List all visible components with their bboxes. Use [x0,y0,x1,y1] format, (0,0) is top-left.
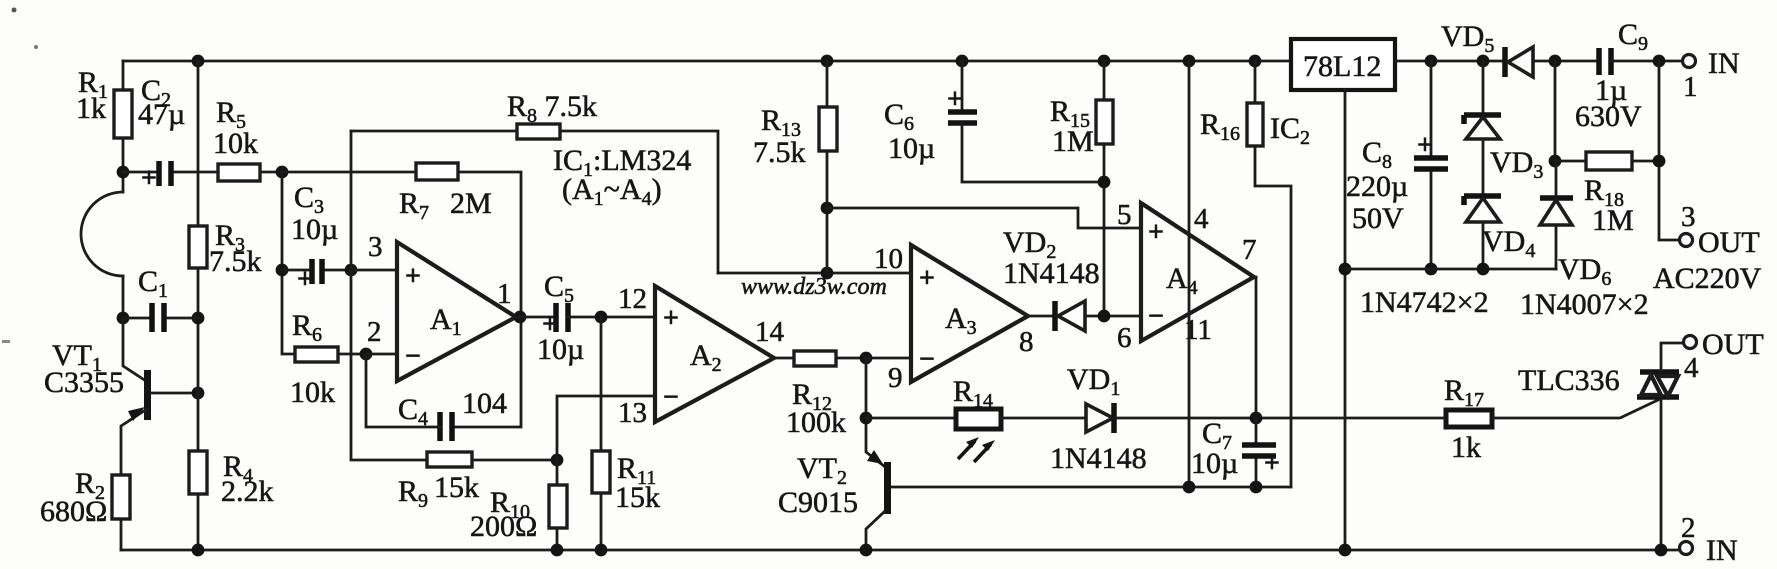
resistor R2 [112,475,130,519]
svg-text:1k: 1k [76,92,106,125]
wire R6 to pin2 node [338,353,366,356]
node VD2 / R15 / pin6 [1098,310,1111,323]
node VD3 top [1477,55,1490,68]
resistor R9 [427,452,472,467]
wire R14 to VD1 [1001,417,1086,420]
node R18 right [1653,155,1666,168]
capacitor C3 [282,269,351,272]
svg-text:10µ: 10µ [888,132,935,165]
node C5 right / R11 top [595,311,608,324]
diode VD6 [1555,161,1558,269]
svg-text:1N4742×2: 1N4742×2 [1360,286,1489,319]
diode VD1 [1086,404,1113,432]
svg-text:+: + [405,261,421,292]
triac TLC336 [1637,372,1679,397]
terminal 4 OUT [1684,336,1697,349]
node zener rail left [1339,263,1352,276]
svg-text:AC220V: AC220V [1653,262,1762,295]
svg-text:+: + [141,163,157,194]
node VD5/C9/R18 [1549,55,1562,68]
resistor R11 [592,451,610,493]
wire VD3 to VD4 [1482,139,1485,196]
wire R3 to C1 node and VT1 base and R4 [197,268,200,451]
capacitor C2 [123,171,218,174]
wire R2 bottom lead [120,519,123,550]
wire R1 top lead [122,61,125,90]
svg-text:3: 3 [368,231,383,263]
svg-text:2M: 2M [450,187,492,220]
wire pin5 jog to A4 [827,208,1141,228]
node A1 output [514,311,527,324]
svg-text:100k: 100k [786,406,846,439]
node pin11 on base wire [1183,481,1196,494]
op-amp A1 [397,242,516,381]
wire pin13 branch [557,396,655,460]
wire VD3 top lead [1482,61,1485,115]
terminal 3 OUT [1680,234,1693,247]
svg-text:7.5k: 7.5k [209,245,262,278]
zener diode VD4 [1464,196,1501,205]
wire triac top to OUT4 [1661,343,1683,372]
svg-text:+: + [919,263,935,294]
svg-text:C3355: C3355 [44,366,124,399]
wire output down to C4 [452,317,521,427]
resistor R18 [1586,152,1632,170]
capacitor C7 [1255,418,1258,487]
node C2/R1/mic [117,166,130,179]
svg-text:TLC336: TLC336 [1518,364,1620,397]
svg-text:15k: 15k [434,471,479,504]
wire VD5 to C9 node [1533,60,1599,63]
op-amp A2 [655,286,774,422]
zener rail [1345,268,1556,271]
svg-text:4: 4 [1684,352,1699,384]
wire R10 leads [556,460,559,550]
resistor R8 [517,124,560,139]
svg-text:www.dz3w.com: www.dz3w.com [741,274,887,300]
op-amp A4 [1141,203,1254,341]
photoresistor R14 [956,409,1001,429]
node R13 / pin5 branch [821,202,834,215]
svg-text:6: 6 [1117,322,1132,354]
svg-text:3: 3 [1681,201,1696,233]
node R14 branch [860,412,873,425]
resistor R12 [794,351,836,366]
node C6/R15 [1098,176,1111,189]
node C8 top [1425,55,1438,68]
resistor R6 [295,347,338,362]
wire R1 bottom lead [122,138,125,192]
node C3 left [276,264,289,277]
wire R5 to node [260,171,282,174]
svg-text:+: + [1264,448,1280,479]
wire VD1 to R17 run [1114,417,1446,420]
svg-text:+: + [1417,130,1433,161]
node C8 bottom rail [1425,263,1438,276]
node A4 out / VD1 run [1250,412,1263,425]
svg-text:2: 2 [1681,512,1696,544]
wire mic to C1 node [122,276,125,318]
svg-text:12: 12 [618,283,647,315]
svg-text:50V: 50V [1352,202,1404,235]
capacitor C9 [1599,48,1611,75]
wire pin3 node down to R9 [351,270,427,460]
svg-text:1: 1 [1683,71,1698,103]
resistor R1 [114,90,132,138]
resistor R5 [218,164,260,181]
svg-text:1N4007×2: 1N4007×2 [1520,288,1649,321]
node triac ground [1655,544,1668,557]
wire R8 top run [351,130,517,133]
svg-text:104: 104 [462,387,507,420]
svg-text:1M: 1M [1592,204,1634,237]
svg-text:2: 2 [367,316,382,348]
wire 78L12 output to VD5 [1395,60,1505,63]
node C7 bottom [1250,481,1263,494]
wire C3/R6 branch [282,172,295,354]
svg-text:C9015: C9015 [778,486,858,519]
wire R11 branch [600,317,603,451]
wire 78L12 ground lead [1344,90,1347,550]
VT2 collector to ground [866,512,884,550]
svg-text:+: + [947,84,963,115]
capacitor C4 [440,412,452,441]
wire C4 to pin2 node [366,354,440,427]
svg-text:15k: 15k [615,481,660,514]
node C1 right [192,312,205,325]
svg-text:14: 14 [755,316,785,348]
wire pin9 into A3 [866,357,911,360]
svg-text:5: 5 [1117,199,1132,231]
node C1 left [117,312,130,325]
svg-text:1M: 1M [1052,125,1094,158]
diode VD5 [1502,47,1508,77]
transistor VT1 [144,370,151,420]
wire to OUT3 terminal [1659,61,1679,240]
node top bus / R3 branch [192,55,205,68]
svg-text:9: 9 [888,362,903,394]
resistor R13 [819,107,837,151]
wire R16 bottom jog down to base wire [1255,146,1291,487]
wire R7 feed from input node [282,171,416,174]
R14 light arrows [958,441,975,459]
wire A3 pin10 run [718,272,911,275]
wire bottom ground bus [121,549,1680,552]
node R18 left [1549,155,1562,168]
capacitor C1 [123,317,198,320]
svg-text:8: 8 [1019,326,1034,358]
capacitor C6 [956,55,969,68]
svg-text:OUT: OUT [1698,226,1760,259]
capacitor C5 [556,303,568,332]
node VD4 rail [1477,263,1490,276]
svg-text:IN: IN [1708,47,1740,80]
resistor R3 [189,226,207,268]
svg-text:−: − [405,341,421,372]
wire A4 pin4/pin11 vertical [1188,61,1191,487]
svg-text:47µ: 47µ [138,98,185,131]
wire R8 right down to A3 pin10 run [560,131,718,273]
node VT1 base / R3-R4 [192,387,205,400]
svg-text:630V: 630V [1575,100,1642,133]
wire pin3 into A1 [351,269,397,272]
svg-text:78L12: 78L12 [1303,50,1381,83]
wire R7 right to A1 output vertical [458,172,521,317]
VT1 emitter wire with arrow [121,409,147,475]
svg-text:1: 1 [497,278,512,310]
wire R13 top lead [826,61,829,107]
diode VD2 [1052,301,1058,331]
svg-text:−: − [663,382,679,413]
wire down to R18 [1554,61,1557,161]
resistor R10 [549,485,567,528]
resistor R16 [1247,103,1263,146]
svg-text:−: − [919,344,935,375]
node R9/R10/pin13 [551,454,564,467]
node R16 top bus [1249,55,1262,68]
node R12/pin9/VT2 [860,352,873,365]
svg-text:7: 7 [1242,234,1257,266]
node VT2 ground [860,544,873,557]
svg-text:10k: 10k [290,376,335,409]
wire R16 top lead [1254,61,1257,103]
wire R3 branch from top bus [197,61,200,226]
svg-text:1k: 1k [1451,431,1481,464]
wire VD2 to A4 pin6 [1085,315,1141,318]
wire R4 bottom lead [197,494,200,550]
svg-text:+: + [1148,217,1164,248]
node R4 on ground bus [192,544,205,557]
svg-text:IN: IN [1706,534,1738,567]
svg-text:10k: 10k [213,127,258,160]
node R15 top bus [1098,55,1111,68]
wire R9 to R10 node [472,459,557,462]
svg-text:10µ: 10µ [291,213,338,246]
node R10 ground [551,544,564,557]
svg-text:13: 13 [618,397,647,429]
svg-text:680Ω: 680Ω [40,495,107,528]
wire R18 leads [1555,160,1659,163]
wire R14 feed [866,417,956,420]
terminal 2 IN [1680,542,1693,555]
svg-text:+: + [297,264,313,295]
wire R12 to node [836,357,866,360]
svg-text:+: + [663,303,679,334]
wire triac bottom to ground bus [1660,397,1663,550]
wire R15 bottom to pin6 [1103,144,1106,316]
wire pin2 into A1 [366,353,397,356]
node A4 pin4 top bus [1183,55,1196,68]
svg-text:1N4148: 1N4148 [1050,442,1147,475]
node A1 pin2 [360,348,373,361]
zener diode VD3 [1464,115,1501,124]
node pin10 / R13 [821,267,834,280]
node 78L12 ground bus [1339,544,1352,557]
svg-text:10µ: 10µ [1191,447,1238,480]
wire A3 out to VD2 [1028,315,1054,318]
wire VT1 collector [123,318,146,381]
resistor R4 [189,451,207,494]
VT1 base wire [151,392,198,395]
node R11 ground [595,544,608,557]
node A1 pin3 [345,264,358,277]
terminal 1 IN [1683,55,1696,68]
VT2 base long wire [891,486,1291,489]
resistor R17 [1446,410,1492,427]
svg-text:1N4148: 1N4148 [1003,257,1100,290]
svg-text:2.2k: 2.2k [221,475,274,508]
wire VT2 emitter branch [866,358,884,466]
resistor R7 [416,163,458,180]
capacitor C8 [1430,61,1433,269]
wire A1 out to C5 [516,316,556,319]
svg-text:4: 4 [1194,203,1209,235]
transistor VT2 [884,462,891,514]
wire A4 output down [1254,277,1256,418]
wire R15 top lead [1103,61,1106,100]
microphone arc [81,192,123,276]
node C9 / OUT3 branch [1653,55,1666,68]
svg-text:−: − [1148,301,1164,332]
svg-text:200Ω: 200Ω [470,510,537,543]
wire R17 to triac gate [1492,400,1658,418]
node R5/C3/R7 [276,166,289,179]
wire R11 bottom [600,493,603,550]
wire VD4 bottom to rail [1482,222,1485,269]
regulator IC 78L12 [1291,39,1395,90]
svg-text:R8 7.5k: R8 7.5k [507,90,597,127]
resistor R15 [1096,100,1113,144]
svg-text:220µ: 220µ [1346,170,1408,203]
scan speckles [12,8,17,13]
svg-text:10µ: 10µ [537,333,584,366]
wire R8 left branch vertical [350,131,353,270]
wire top supply bus [123,60,1291,63]
svg-text:10: 10 [874,243,903,275]
svg-text:OUT: OUT [1702,328,1764,361]
wire R13 bottom to pin10 node [826,151,829,273]
node R13 top bus [821,55,834,68]
svg-text:7.5k: 7.5k [753,136,806,169]
wire A2 output [774,357,794,360]
op-amp A3 [911,245,1028,382]
